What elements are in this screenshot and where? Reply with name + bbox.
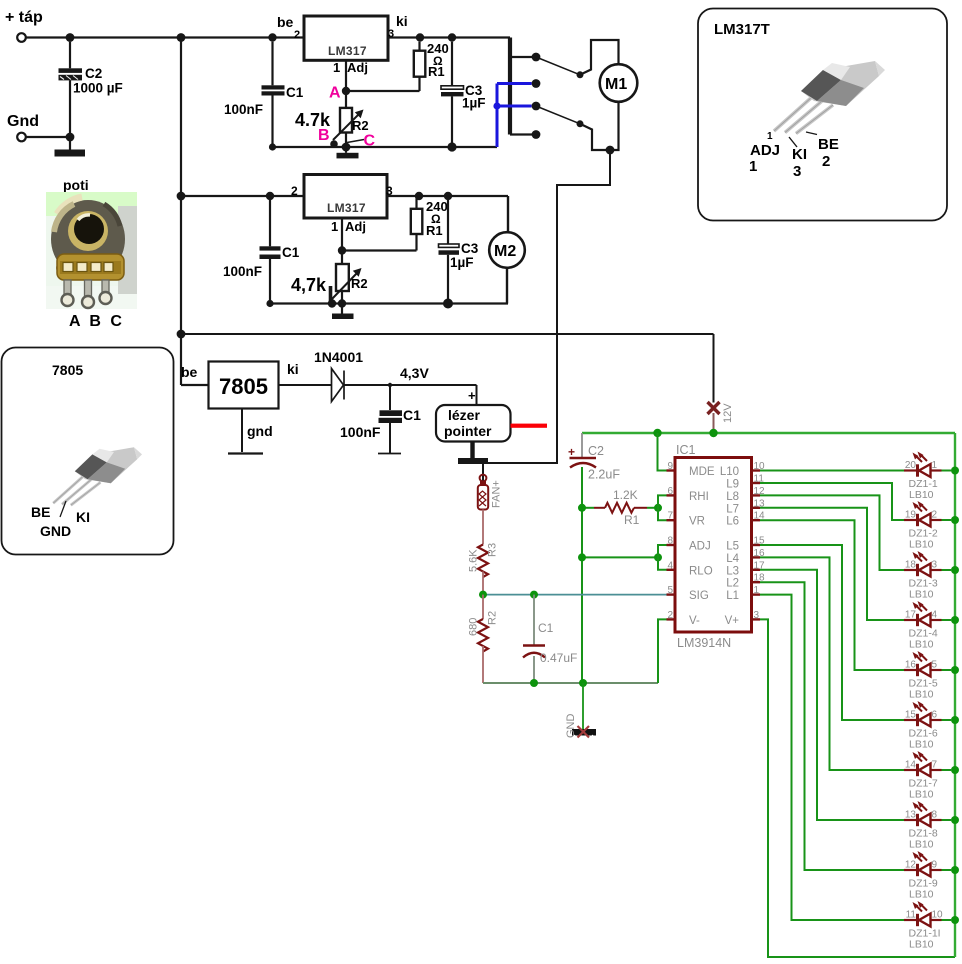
svg-text:1: 1: [932, 460, 938, 471]
svg-text:3: 3: [754, 610, 760, 621]
svg-text:L4: L4: [726, 553, 739, 565]
wire MDE to rail: [658, 433, 667, 471]
wire SIG: [483, 594, 667, 596]
wire main 12V rail: [181, 333, 714, 335]
svg-text:gnd: gnd: [247, 423, 273, 439]
wire laser plus: [468, 385, 477, 405]
svg-text:BE: BE: [818, 136, 839, 153]
svg-text:Gnd: Gnd: [7, 113, 39, 130]
node C: [347, 133, 376, 150]
pin 5 SIG left: [667, 585, 709, 602]
junction: [479, 591, 487, 599]
svg-text:be: be: [181, 364, 198, 380]
info box LM317T pinout: [698, 9, 947, 221]
wire block1 bottom rail: [273, 146, 498, 148]
switch contact stub top: [510, 53, 540, 62]
wire L6 staircase: [760, 520, 904, 670]
pin 14 L6 right: [726, 511, 765, 528]
svg-text:RHI: RHI: [689, 491, 709, 503]
svg-text:10: 10: [932, 910, 944, 921]
svg-text:R1: R1: [428, 64, 445, 79]
junction: [443, 299, 453, 309]
switch contact mid1: [532, 79, 541, 88]
wire L10 to DZ1-1: [760, 470, 904, 472]
svg-text:C1: C1: [282, 245, 300, 260]
svg-text:1000 µF: 1000 µF: [73, 81, 123, 96]
svg-text:3: 3: [793, 163, 801, 180]
svg-text:100nF: 100nF: [224, 102, 263, 117]
potentiometer R2 4.7k: [295, 95, 369, 147]
diode D1 1N4001: [314, 349, 363, 402]
wire motor return to FAN: [483, 150, 610, 481]
junction: [415, 192, 423, 200]
svg-text:RLO: RLO: [689, 565, 713, 577]
wire L8 staircase: [760, 495, 904, 570]
svg-text:M1: M1: [605, 76, 627, 93]
svg-text:+: +: [468, 388, 476, 403]
ground 7805 gnd: [228, 409, 273, 454]
junction: [951, 666, 959, 674]
svg-text:2: 2: [932, 510, 938, 521]
svg-text:C1: C1: [538, 621, 554, 635]
resistor R1 240 ohm block2: [411, 196, 448, 238]
terminal +tap: [5, 9, 43, 42]
resistor R2 680: [468, 595, 499, 683]
wire V- down: [658, 619, 667, 683]
svg-text:ADJ: ADJ: [750, 142, 780, 159]
switch contact mid2: [532, 102, 541, 111]
junction: [951, 716, 959, 724]
wire +tap top rail: [26, 36, 304, 38]
LED DZ1-5 LB10: [904, 651, 951, 701]
junction: [653, 429, 661, 437]
pin 9 MDE left: [667, 461, 715, 478]
wire top supply rail: [582, 432, 955, 434]
svg-text:A B C: A B C: [69, 313, 124, 330]
switch throw bottom: [536, 106, 584, 127]
junction: [579, 679, 587, 687]
wire 12V drop: [713, 334, 715, 403]
svg-text:1µF: 1µF: [450, 255, 474, 270]
svg-text:L10: L10: [720, 466, 739, 478]
svg-text:16: 16: [905, 660, 917, 671]
svg-text:R2: R2: [352, 118, 369, 133]
svg-text:LB10: LB10: [909, 839, 934, 851]
svg-text:Adj: Adj: [345, 219, 366, 234]
svg-text:L5: L5: [726, 541, 739, 553]
svg-text:KI: KI: [76, 509, 90, 525]
svg-text:1µF: 1µF: [462, 96, 486, 111]
wire L4 staircase: [760, 557, 904, 770]
info box 7805 pinout: [2, 348, 174, 555]
regulator U1 LM317: [304, 16, 388, 60]
pin 10 L10 right: [720, 461, 765, 478]
svg-text:L9: L9: [726, 479, 739, 491]
svg-text:LM317T: LM317T: [714, 21, 770, 38]
svg-text:4: 4: [667, 560, 673, 571]
junction: [177, 192, 186, 201]
wire LED supply right rail: [954, 433, 956, 957]
ground: [55, 133, 86, 157]
junction: [268, 33, 276, 41]
junction: [328, 299, 336, 307]
svg-text:IC1: IC1: [676, 443, 696, 457]
svg-text:ki: ki: [396, 13, 408, 29]
connector FAN+: [478, 475, 503, 510]
junction: [266, 300, 273, 307]
pin 2 V- left: [667, 610, 701, 627]
svg-text:2: 2: [294, 29, 300, 41]
junction: [177, 330, 186, 339]
pin label be 2: [277, 14, 300, 41]
laser beam red: [511, 424, 548, 428]
junction: [951, 467, 959, 475]
svg-text:V+: V+: [725, 615, 740, 627]
LM317T package drawing: [774, 61, 885, 134]
junction: [338, 299, 346, 307]
wire ADJ RLO stub tie: [658, 545, 667, 570]
svg-text:18: 18: [905, 560, 917, 571]
svg-text:14: 14: [905, 760, 917, 771]
junction: [342, 143, 351, 152]
pin 15 L5 right: [726, 536, 765, 553]
junction: [654, 504, 662, 512]
wire L5 staircase: [760, 545, 904, 720]
svg-text:SIG: SIG: [689, 590, 709, 602]
svg-text:1: 1: [331, 219, 338, 234]
svg-text:2: 2: [291, 184, 298, 198]
junction: [951, 616, 959, 624]
svg-text:LB10: LB10: [909, 739, 934, 751]
junction: [530, 591, 538, 599]
junction: [951, 566, 959, 574]
svg-text:LM3914N: LM3914N: [677, 636, 731, 650]
switch common bar: [508, 38, 512, 135]
svg-text:LB10: LB10: [909, 789, 934, 801]
pin 16 L4 right: [726, 548, 765, 565]
wire ADJ RLO tie: [582, 556, 658, 558]
svg-text:1: 1: [749, 158, 757, 175]
pin 11 L9 right: [726, 474, 764, 491]
junction: [709, 429, 717, 437]
svg-text:100nF: 100nF: [340, 424, 381, 440]
LED DZ1-8 LB10: [904, 801, 951, 851]
svg-text:15: 15: [905, 710, 917, 721]
pin 18 L2 right: [726, 573, 765, 590]
wire adj block2: [342, 218, 417, 251]
pin 12 L8 right: [726, 486, 765, 503]
svg-text:1.2K: 1.2K: [613, 488, 638, 502]
pin 17 L3 right: [726, 560, 765, 577]
node A: [342, 87, 350, 95]
pin 1 Adj label block2: [331, 219, 366, 234]
svg-text:lézer: lézer: [448, 407, 480, 423]
svg-text:FAN+: FAN+: [491, 480, 503, 508]
wire bottom rail: [483, 682, 658, 684]
svg-text:C3: C3: [461, 241, 479, 256]
svg-text:1: 1: [754, 585, 760, 596]
motor M1: [600, 64, 638, 102]
junction: [530, 679, 538, 687]
svg-text:9: 9: [667, 461, 673, 472]
wire L3 staircase: [760, 570, 904, 820]
svg-text:6: 6: [667, 486, 673, 497]
LED DZ1-3 LB10: [904, 551, 951, 601]
svg-text:L1: L1: [726, 590, 739, 602]
wire left vertical +rail: [180, 38, 182, 386]
pin 4 RLO left: [667, 560, 713, 577]
svg-text:KI: KI: [792, 146, 807, 163]
ground GND flag: [565, 683, 596, 738]
svg-text:12: 12: [905, 860, 917, 871]
wire RHI VR tie: [658, 495, 667, 520]
ground laser: [458, 442, 488, 465]
svg-text:M2: M2: [494, 243, 516, 260]
svg-text:5: 5: [932, 660, 938, 671]
ground: [337, 147, 359, 158]
regulator 7805: [209, 362, 279, 409]
wire V+ down: [760, 619, 955, 957]
svg-text:100nF: 100nF: [223, 264, 262, 279]
wire gnd: [26, 136, 70, 138]
LED DZ1-4 LB10: [904, 601, 951, 651]
laser pointer module: [436, 405, 511, 442]
ground block2: [332, 304, 354, 320]
pin 8 ADJ left: [667, 536, 711, 553]
junction: [951, 866, 959, 874]
svg-text:C2: C2: [85, 66, 102, 81]
svg-text:680: 680: [468, 618, 480, 636]
LED DZ1-1 LB10: [904, 452, 951, 502]
resistor R1 240 ohm: [414, 41, 449, 79]
wire adj: [346, 60, 420, 91]
svg-text:+: +: [568, 445, 575, 459]
potentiometer photo poti: [46, 177, 137, 330]
resistor R1 1.2K: [582, 488, 658, 527]
pin 1 L1 right: [726, 585, 760, 602]
svg-text:L2: L2: [726, 578, 739, 590]
switch contact stub bottom: [510, 130, 540, 139]
svg-text:L3: L3: [726, 565, 739, 577]
svg-text:VR: VR: [689, 516, 705, 528]
node B: [318, 127, 338, 148]
svg-text:7: 7: [932, 760, 938, 771]
capacitor C1 100nF block2: [223, 196, 300, 304]
wire M1 top: [580, 40, 619, 75]
svg-text:C2: C2: [588, 444, 604, 458]
junction: [578, 553, 586, 561]
LED DZ1-7 LB10: [904, 751, 951, 801]
junction: [951, 766, 959, 774]
svg-text:V-: V-: [689, 615, 700, 627]
svg-text:5: 5: [667, 585, 673, 596]
junction: [269, 143, 276, 150]
wire M1 bottom: [580, 102, 619, 150]
junction: [578, 504, 586, 512]
wire L2 staircase: [760, 582, 904, 870]
wire U2 output: [387, 195, 508, 197]
pin 13 L7 right: [726, 498, 765, 515]
junction: [416, 33, 424, 41]
regulator U2 LM317: [304, 175, 387, 219]
svg-text:11: 11: [906, 910, 917, 921]
wire L9 staircase: [760, 483, 904, 520]
capacitor C2 2.2uF: [568, 433, 620, 683]
junction: [444, 192, 452, 200]
net bridge X 12V: [708, 402, 735, 433]
svg-text:0.47uF: 0.47uF: [540, 651, 577, 665]
IC U3 LM3914N body: [675, 443, 752, 650]
wire 4.3V: [344, 384, 477, 386]
wire blue reverse polarity: [493, 84, 531, 148]
capacitor C3 1uF block1: [441, 42, 486, 147]
junction: [448, 33, 456, 41]
junction: [66, 33, 75, 42]
LED DZ1-10 LB10: [904, 901, 951, 951]
svg-text:5.6K: 5.6K: [468, 549, 480, 572]
svg-text:7: 7: [667, 511, 673, 522]
capacitor C1 100nF laser: [340, 385, 421, 454]
svg-text:4,7k: 4,7k: [291, 275, 327, 295]
svg-text:C1: C1: [403, 407, 421, 423]
LED DZ1-2 LB10: [904, 501, 951, 551]
svg-text:19: 19: [905, 510, 917, 521]
junction: [388, 383, 392, 387]
svg-text:LB10: LB10: [909, 489, 934, 501]
svg-text:Adj: Adj: [347, 60, 368, 75]
svg-text:6: 6: [932, 710, 938, 721]
junction: [951, 816, 959, 824]
junction: [606, 146, 615, 155]
wire U2 input: [181, 195, 304, 197]
LED DZ1-6 LB10: [904, 701, 951, 751]
svg-text:GND: GND: [40, 523, 71, 539]
pin 6 RHI left: [667, 486, 709, 503]
capacitor C2 1000uF: [59, 42, 123, 133]
svg-text:poti: poti: [63, 177, 89, 193]
junction: [66, 133, 75, 142]
svg-text:pointer: pointer: [444, 423, 492, 439]
svg-text:1N4001: 1N4001: [314, 349, 363, 365]
svg-text:LB10: LB10: [909, 589, 934, 601]
svg-text:20: 20: [905, 460, 917, 471]
svg-text:A: A: [329, 85, 341, 102]
svg-text:ADJ: ADJ: [689, 541, 711, 553]
svg-text:17: 17: [905, 610, 917, 621]
svg-text:1: 1: [333, 60, 340, 75]
svg-text:12V: 12V: [722, 403, 734, 423]
svg-text:1: 1: [767, 131, 773, 142]
svg-text:2: 2: [667, 610, 673, 621]
LM317T package labels: [749, 131, 839, 180]
svg-text:R1: R1: [624, 513, 640, 527]
svg-text:8: 8: [667, 536, 673, 547]
svg-text:LM317: LM317: [328, 44, 367, 58]
svg-text:be: be: [277, 14, 294, 30]
svg-text:9: 9: [932, 860, 938, 871]
svg-text:B: B: [318, 127, 330, 144]
svg-text:7805: 7805: [52, 362, 83, 378]
wire be: [181, 384, 209, 386]
svg-text:R2: R2: [351, 276, 368, 291]
junction: [338, 246, 346, 254]
svg-text:13: 13: [905, 810, 917, 821]
junction: [654, 553, 662, 561]
pin 7 VR left: [667, 511, 705, 528]
pin 3 V+ right: [725, 610, 760, 627]
svg-text:R2: R2: [487, 611, 499, 625]
resistor R3 5.6K: [468, 510, 499, 595]
svg-text:MDE: MDE: [689, 466, 715, 478]
svg-text:GND: GND: [565, 714, 577, 739]
junction: [951, 916, 959, 924]
svg-text:R1: R1: [426, 223, 443, 238]
7805 package labels: [31, 501, 90, 539]
wire L1 staircase: [760, 595, 904, 920]
svg-text:LB10: LB10: [909, 539, 934, 551]
svg-text:LB10: LB10: [909, 939, 934, 951]
svg-text:+ táp: + táp: [5, 9, 43, 26]
junction: [951, 516, 959, 524]
svg-text:ki: ki: [287, 361, 299, 377]
capacitor C1 100nF block1: [224, 42, 304, 147]
potentiometer R2 4.7k block2: [291, 251, 368, 304]
svg-text:LM317: LM317: [327, 201, 366, 215]
motor M2: [489, 196, 525, 304]
svg-text:R3: R3: [487, 543, 499, 557]
wire U1 output: [388, 36, 510, 38]
capacitor C3 1uF block2: [439, 196, 479, 304]
junction: [266, 192, 274, 200]
capacitor C1 0.47uF: [523, 595, 577, 683]
svg-text:L8: L8: [726, 491, 739, 503]
svg-text:LB10: LB10: [909, 639, 934, 651]
LED DZ1-9 LB10: [904, 851, 951, 901]
svg-text:LB10: LB10: [909, 689, 934, 701]
terminal Gnd: [7, 113, 39, 141]
wire block2 bottom rail: [270, 302, 508, 304]
junction: [177, 33, 186, 42]
pin 1 Adj label: [333, 60, 368, 75]
svg-text:C1: C1: [286, 85, 304, 100]
svg-text:2.2uF: 2.2uF: [588, 468, 620, 482]
svg-text:4,3V: 4,3V: [400, 365, 429, 381]
svg-text:4: 4: [932, 610, 938, 621]
svg-text:BE: BE: [31, 504, 50, 520]
svg-text:3: 3: [932, 560, 938, 571]
wire ki: [279, 384, 332, 386]
svg-text:L6: L6: [726, 516, 739, 528]
svg-text:7805: 7805: [219, 374, 268, 399]
svg-text:LB10: LB10: [909, 889, 934, 901]
svg-text:L7: L7: [726, 503, 739, 515]
junction: [447, 142, 456, 151]
pin label ki 3: [388, 13, 408, 40]
svg-text:2: 2: [822, 153, 830, 170]
switch throw top: [536, 57, 584, 78]
wire L7 staircase: [760, 508, 904, 620]
svg-text:8: 8: [932, 810, 938, 821]
